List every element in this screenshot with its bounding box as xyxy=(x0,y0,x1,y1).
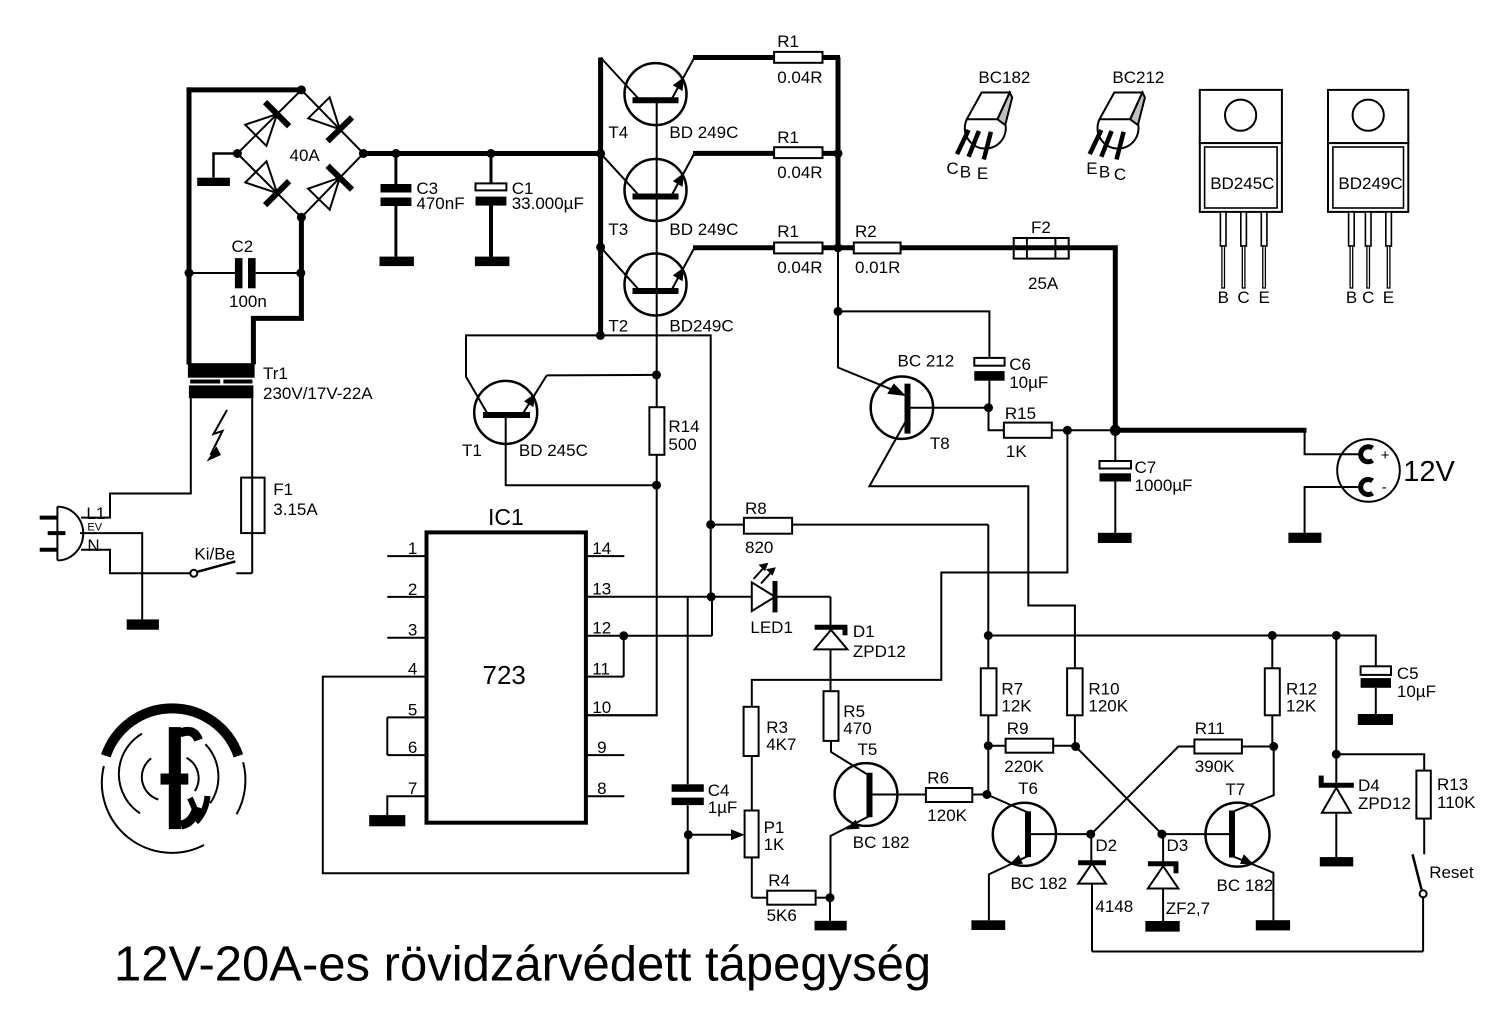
wire: rail bottom junction right to R8 column xyxy=(600,335,710,596)
svg-text:B: B xyxy=(960,162,971,181)
label R7 12K xyxy=(1001,679,1032,715)
zener diode D4 ZPD12 xyxy=(1319,776,1354,858)
IC IC1 (723) body xyxy=(427,532,586,822)
svg-text:B: B xyxy=(1346,288,1357,307)
mains plug body xyxy=(57,507,83,561)
node: C2 left junction xyxy=(185,269,194,278)
transistor T7 BC182 xyxy=(1162,747,1274,921)
node: R15 right junction xyxy=(1063,426,1072,435)
fuse F2 xyxy=(1014,238,1069,259)
svg-text:E: E xyxy=(1259,288,1270,307)
wire: thick emitter rail x=838 xyxy=(836,58,841,248)
label C3 470nF xyxy=(416,179,464,213)
wire: jumper pin5 to pin6 xyxy=(386,717,388,755)
logo emblem xyxy=(102,708,246,852)
label 40A xyxy=(290,146,321,165)
wire: output to 12V plus pin xyxy=(1305,430,1361,454)
svg-text:13: 13 xyxy=(592,580,611,599)
label Ki/Be xyxy=(194,545,235,564)
wire: common base line of T4 T3 T2 down to T1 emitter junction xyxy=(656,100,658,375)
transformer Tr1: secondary bar xyxy=(188,363,255,378)
label T5 BC 182 xyxy=(853,740,910,852)
node: bridge left junction xyxy=(233,149,242,158)
svg-text:Tr1: Tr1 xyxy=(263,364,288,383)
ground under C7 xyxy=(1098,533,1132,543)
ground under D3 xyxy=(1145,921,1179,932)
label R1 0.04R (bottom) xyxy=(777,222,822,277)
wire: flip-flop positive rail xyxy=(988,636,1376,667)
node: R14 bottom / T1 base junction xyxy=(652,481,661,490)
resistor R1 (top) xyxy=(774,52,822,63)
resistor R2 xyxy=(854,243,901,254)
label R1 0.04R (middle) xyxy=(777,128,822,182)
transistor T2 BD249C xyxy=(601,247,695,315)
labels C B E of BC182 xyxy=(946,159,988,183)
transistor T6 BC182 xyxy=(987,795,1091,921)
capacitor C5 xyxy=(1361,666,1391,714)
svg-text:B: B xyxy=(1218,288,1229,307)
svg-text:T5: T5 xyxy=(858,740,878,759)
svg-text:723: 723 xyxy=(483,660,526,690)
node: R6 / T6 collector junction xyxy=(982,790,991,799)
bridge rectifier 40A: diode D-BR xyxy=(308,166,352,210)
wire: reset line to D2 anode xyxy=(1092,951,1423,953)
ground at pin 7 xyxy=(369,815,405,826)
node: bridge right junction xyxy=(359,149,368,158)
label D2 4148 xyxy=(1095,836,1133,916)
package drawing BD245C (TO-220) xyxy=(1200,90,1282,288)
svg-text:12K: 12K xyxy=(1001,696,1032,715)
wire: thick collector rail x=600.6 xyxy=(598,58,603,336)
node: C1 tap on dc rail xyxy=(487,149,496,158)
potentiometer P1 body xyxy=(745,811,759,898)
node: T1 collector junction on rail xyxy=(596,331,605,340)
label C2 100n xyxy=(229,237,267,311)
svg-text:2: 2 xyxy=(408,580,417,599)
switch Reset xyxy=(1413,854,1427,951)
svg-text:BC182: BC182 xyxy=(978,68,1030,87)
pin 11 tied to pin 12 xyxy=(586,636,624,679)
label R2 0.01R xyxy=(855,222,900,277)
label R8 820 xyxy=(745,499,773,557)
svg-text:F2: F2 xyxy=(1031,218,1051,237)
label T7 BC 182 xyxy=(1217,780,1274,895)
label R6 120K xyxy=(927,768,967,825)
svg-text:R14: R14 xyxy=(668,417,699,436)
diode D2 4148 xyxy=(1078,834,1106,951)
label C7 1000uF xyxy=(1135,458,1193,495)
svg-text:R15: R15 xyxy=(1005,404,1036,423)
wire: rail branch down to D4/R13 xyxy=(1335,636,1337,783)
svg-text:4: 4 xyxy=(408,660,417,679)
svg-text:T7: T7 xyxy=(1225,780,1245,799)
svg-text:11: 11 xyxy=(592,660,610,679)
svg-text:Ki/Be: Ki/Be xyxy=(194,545,235,564)
svg-text:8: 8 xyxy=(597,779,606,798)
svg-text:D2: D2 xyxy=(1095,836,1117,855)
label LED1 xyxy=(750,618,793,637)
svg-text:T6: T6 xyxy=(1018,779,1038,798)
node: D4 / R13 junction xyxy=(1332,750,1341,759)
svg-text:BD 249C: BD 249C xyxy=(669,123,738,142)
svg-text:110K: 110K xyxy=(1437,793,1476,812)
bridge rectifier edges xyxy=(237,90,363,217)
svg-text:BC212: BC212 xyxy=(1112,68,1164,87)
wire: primary left leg to L1 xyxy=(81,398,191,517)
resistor R10 xyxy=(1067,668,1083,747)
svg-text:C: C xyxy=(946,159,958,178)
svg-text:N: N xyxy=(87,536,99,555)
mains plug pin N xyxy=(40,548,58,552)
wire: R8 right down to positive rail of flip-flop xyxy=(987,525,989,636)
svg-text:BC 182: BC 182 xyxy=(1217,876,1274,895)
wire: T4 emitter row to R1 xyxy=(693,55,840,60)
node: T6 base / D2 junction xyxy=(1086,830,1095,839)
package drawing BC212 (TO-92) xyxy=(1090,93,1145,160)
wire: R14 bottom junction down to IC pin 10 xyxy=(586,485,657,715)
label Reset xyxy=(1429,863,1474,882)
svg-text:+: + xyxy=(1381,447,1390,464)
labels B C E of BD249C xyxy=(1346,288,1394,307)
resistor R1 (bottom) xyxy=(774,243,822,254)
wire: primary right leg down into fuse F1 xyxy=(251,398,253,573)
label R15 1K xyxy=(1005,404,1036,461)
svg-text:220K: 220K xyxy=(1004,757,1044,776)
node: R4 / T5 emitter / ground junction xyxy=(826,893,835,902)
svg-text:R4: R4 xyxy=(768,871,790,890)
capacitor C6 xyxy=(974,358,1004,408)
ground under T6 xyxy=(971,920,1005,930)
svg-text:40A: 40A xyxy=(290,146,321,165)
svg-text:C6: C6 xyxy=(1009,355,1031,374)
svg-text:120K: 120K xyxy=(1088,696,1128,715)
pin 3 xyxy=(387,621,426,640)
svg-text:C: C xyxy=(1237,288,1249,307)
node: rail / R7 junction xyxy=(984,631,993,640)
svg-text:BD245C: BD245C xyxy=(1210,174,1274,193)
package drawing BC182 (TO-92) xyxy=(957,93,1012,160)
node: rail/bridge junction at T3 collector xyxy=(596,149,605,158)
svg-text:BC 182: BC 182 xyxy=(853,833,910,852)
svg-text:T8: T8 xyxy=(930,434,950,453)
svg-text:T3: T3 xyxy=(608,220,628,239)
label T1 BD 245C xyxy=(462,441,588,460)
svg-text:BD 249C: BD 249C xyxy=(669,220,738,239)
svg-text:R2: R2 xyxy=(855,222,877,241)
label 723 xyxy=(483,660,526,690)
svg-text:EV: EV xyxy=(87,522,102,534)
svg-text:R6: R6 xyxy=(927,768,949,787)
transistor T1 BD245C xyxy=(474,375,656,485)
wire: F2 to output down and right (thick) xyxy=(1069,248,1307,430)
svg-text:3: 3 xyxy=(408,621,417,640)
pin 5 xyxy=(387,700,426,719)
label R12 12K xyxy=(1286,679,1317,715)
svg-text:ZPD12: ZPD12 xyxy=(1358,794,1411,813)
pin 1 xyxy=(387,539,426,558)
svg-text:230V/17V-22A: 230V/17V-22A xyxy=(263,384,373,403)
mains plug pin EV xyxy=(48,531,66,535)
svg-text:C: C xyxy=(1362,288,1374,307)
label R9 220K xyxy=(1004,719,1044,776)
labels B C E of BD245C xyxy=(1218,288,1270,307)
label T6 BC 182 xyxy=(1011,779,1068,893)
wire: thick left vertical wire (secondary left leg) xyxy=(187,87,192,364)
label R4 5K6 xyxy=(767,871,797,925)
svg-text:T1: T1 xyxy=(462,441,482,460)
ground under R4/T5 xyxy=(815,921,847,931)
node: pin12 junction dot xyxy=(619,631,628,640)
svg-text:D4: D4 xyxy=(1358,776,1380,795)
transistor T4 BD249C xyxy=(601,58,695,126)
label BC182 xyxy=(978,68,1030,87)
label R13 110K xyxy=(1437,775,1476,812)
svg-text:6: 6 xyxy=(408,738,417,757)
node: C2 right junction xyxy=(296,269,305,278)
svg-text:T2: T2 xyxy=(608,317,628,336)
node: R8 left junction xyxy=(706,520,715,529)
node: C5/D4 branch on rail xyxy=(1332,631,1341,640)
ground of mains earth xyxy=(127,619,159,629)
svg-text:C: C xyxy=(1114,165,1126,184)
node: T8 base junction xyxy=(984,403,993,412)
resistor R6 xyxy=(926,788,987,802)
resistor R5 xyxy=(824,691,868,774)
label R10 120K xyxy=(1088,679,1128,715)
wire: N pin to switch xyxy=(81,550,190,574)
wire: 12V minus pin to ground xyxy=(1305,487,1361,533)
label R1 0.04R (top) xyxy=(777,32,822,87)
svg-text:12V-20A-es rövidzárvédett tápe: 12V-20A-es rövidzárvédett tápegység xyxy=(114,938,931,992)
node: rail junction at T2 collector xyxy=(596,243,605,252)
connector 12V output xyxy=(1337,439,1400,502)
label BD245C inside package xyxy=(1210,174,1274,193)
mains plug pin L1 xyxy=(40,516,58,520)
transformer Tr1: core dashes xyxy=(190,380,252,384)
svg-text:0.04R: 0.04R xyxy=(777,163,822,182)
svg-text:D1: D1 xyxy=(853,622,875,641)
label T4 BD 249C xyxy=(608,123,738,142)
svg-text:4148: 4148 xyxy=(1095,897,1133,916)
svg-text:T4: T4 xyxy=(608,123,628,142)
label T2 BD249C xyxy=(608,317,733,336)
capacitor C7 xyxy=(1100,430,1132,533)
svg-text:E: E xyxy=(1383,288,1394,307)
capacitor C1 (electrolytic) xyxy=(476,154,507,257)
svg-text:0.04R: 0.04R xyxy=(777,258,822,277)
zener diode D3 ZF2,7 xyxy=(1148,834,1179,921)
wire: junction right to R13 xyxy=(1336,754,1424,770)
label BC 212 xyxy=(898,352,955,371)
label BC212 xyxy=(1112,68,1164,87)
node: R12 top on rail xyxy=(1268,631,1277,640)
wire: junction to ground xyxy=(829,898,831,921)
lightning bolt inside primary loop xyxy=(207,410,228,462)
svg-text:390K: 390K xyxy=(1195,757,1235,776)
ground under D4 xyxy=(1320,857,1353,866)
transistor T3 BD249C xyxy=(601,153,695,221)
label BD249C inside package xyxy=(1338,174,1402,193)
capacitor C4 xyxy=(672,597,704,873)
label R14 500 xyxy=(668,417,699,454)
svg-text:R8: R8 xyxy=(745,499,767,518)
wire: T2 emitter row to R1 and R2 xyxy=(693,245,854,250)
wire: thick top wire from transformer to bridge top node xyxy=(187,87,301,92)
transformer Tr1: primary bar xyxy=(189,385,254,398)
bridge rectifier 40A: diode D-TL xyxy=(245,102,289,146)
svg-text:D3: D3 xyxy=(1167,836,1189,855)
wire: bridge bottom node down and jog to transformer right leg xyxy=(253,217,301,364)
svg-text:BD 245C: BD 245C xyxy=(519,441,588,460)
svg-text:1µF: 1µF xyxy=(708,798,738,817)
svg-text:LED1: LED1 xyxy=(750,618,793,637)
label C6 10uF xyxy=(1009,355,1048,392)
node: C6 branch junction xyxy=(834,307,843,316)
label D1 ZPD12 xyxy=(853,622,906,661)
ground under 12V connector xyxy=(1288,533,1321,543)
svg-text:12V: 12V xyxy=(1403,456,1455,488)
wire: sense line from R3 top to R15 junction xyxy=(752,430,1068,707)
potentiometer P1 wiper arrow xyxy=(688,829,744,840)
wire: cross-coupling from T6 base up to R11 xyxy=(1091,747,1194,835)
resistor R12 xyxy=(1265,636,1280,747)
wire: earth pin to ground xyxy=(80,533,142,619)
svg-text:R13: R13 xyxy=(1437,775,1468,794)
pin 14 xyxy=(586,539,624,558)
svg-text:12K: 12K xyxy=(1286,696,1317,715)
svg-text:120K: 120K xyxy=(927,806,967,825)
pin 9 xyxy=(586,738,624,757)
zener diode D1 ZPD12 xyxy=(815,597,848,691)
node: R11 / R12 / T7 collector junction xyxy=(1269,742,1278,751)
node: output thick wire / C7 junction xyxy=(1110,425,1121,436)
node: pin13 / LED / R8 junction xyxy=(707,592,716,601)
resistor R1 (middle) xyxy=(774,147,822,158)
svg-text:25A: 25A xyxy=(1028,274,1059,293)
LED LED1 xyxy=(752,581,831,612)
pin 13 wire to LED junction xyxy=(586,580,752,599)
label D4 ZPD12 xyxy=(1358,776,1411,813)
svg-text:BC 182: BC 182 xyxy=(1011,874,1068,893)
resistor R3 xyxy=(744,707,759,811)
svg-text:C7: C7 xyxy=(1135,458,1157,477)
bridge rectifier 40A: diode D-TR xyxy=(308,97,352,141)
wire: R7 bottom junction down to T6 collector node xyxy=(987,746,989,795)
resistor R13 xyxy=(1416,771,1430,855)
label F1 3.15A xyxy=(273,480,318,519)
wire: cross-coupling from R10 bottom to T7 base xyxy=(1076,747,1162,835)
label D3 ZF2,7 xyxy=(1166,836,1210,918)
node: R7 bottom / R9 left junction xyxy=(984,741,993,750)
wire: T3 emitter row to R1 xyxy=(693,151,840,156)
ground under T7 xyxy=(1256,920,1290,930)
ground under C3 xyxy=(380,257,414,267)
svg-text:470: 470 xyxy=(843,719,871,738)
node: emitter rail junction row2 xyxy=(834,149,843,158)
svg-text:500: 500 xyxy=(668,435,696,454)
pin 6 xyxy=(387,738,426,757)
resistor R4 xyxy=(752,891,830,905)
node: C4 / pin4 / wiper junction xyxy=(684,830,693,839)
pin 10 xyxy=(586,698,658,717)
transistor T5 BC182 xyxy=(831,763,926,898)
svg-text:BD249C: BD249C xyxy=(669,317,733,336)
resistor R15 xyxy=(989,408,1116,438)
svg-text:R1: R1 xyxy=(777,32,799,51)
label T3 BD 249C xyxy=(608,220,738,239)
resistor R14 xyxy=(649,375,664,485)
svg-text:1K: 1K xyxy=(1006,442,1027,461)
svg-text:100n: 100n xyxy=(229,292,267,311)
svg-text:C5: C5 xyxy=(1397,664,1419,683)
svg-text:E: E xyxy=(977,164,988,183)
capacitor C3 xyxy=(381,154,412,257)
svg-text:E: E xyxy=(1086,159,1097,178)
label C5 10uF xyxy=(1397,664,1436,701)
pin 2 xyxy=(387,580,426,599)
label P1 1K xyxy=(764,818,785,854)
svg-text:R1: R1 xyxy=(777,128,799,147)
pin 12 wire and junction xyxy=(586,597,712,638)
title text xyxy=(114,938,931,992)
resistor R7 xyxy=(981,636,997,746)
label C4 1uF xyxy=(708,781,738,817)
transistor T8 BC212 xyxy=(869,377,1075,669)
svg-text:R1: R1 xyxy=(777,222,799,241)
svg-text:1000µF: 1000µF xyxy=(1135,476,1193,495)
svg-text:BC 212: BC 212 xyxy=(898,352,955,371)
label R5 470 xyxy=(843,702,871,738)
wire: bridge right node to transistor rail xyxy=(363,151,600,156)
bridge rectifier 40A: diode D-BL xyxy=(245,161,289,205)
wire: R2 to F2 thick xyxy=(901,245,1014,250)
label F2 25A xyxy=(1028,218,1059,293)
fuse F1 xyxy=(241,478,265,533)
svg-text:ZF2,7: ZF2,7 xyxy=(1166,899,1210,918)
labels E B C of BC212 xyxy=(1086,159,1126,184)
svg-text:0.01R: 0.01R xyxy=(855,258,900,277)
svg-text:R9: R9 xyxy=(1007,719,1029,738)
svg-text:L1: L1 xyxy=(86,504,105,523)
svg-text:1: 1 xyxy=(408,539,417,558)
svg-text:C2: C2 xyxy=(232,237,254,256)
svg-text:1K: 1K xyxy=(764,835,785,854)
pin 7 with ground xyxy=(387,779,426,815)
svg-text:10: 10 xyxy=(592,698,611,717)
label T8 xyxy=(930,434,950,453)
wire: bridge left node stub to plate xyxy=(214,154,238,178)
wire: C6 top wire xyxy=(838,311,989,358)
svg-text:7: 7 xyxy=(408,779,417,798)
capacitor C2 xyxy=(189,258,301,288)
pin 8 xyxy=(586,779,624,798)
ground under C5 xyxy=(1358,714,1393,725)
svg-text:12: 12 xyxy=(592,619,611,638)
svg-text:Reset: Reset xyxy=(1429,863,1474,882)
node: T1 emitter to base-line junction xyxy=(652,370,661,379)
resistor R9 xyxy=(988,739,1075,753)
label 12V xyxy=(1403,456,1455,488)
ground under C1 xyxy=(475,257,510,267)
label C1 33.000uF xyxy=(512,179,584,213)
node: C3 tap on dc rail xyxy=(391,149,400,158)
resistor R11 xyxy=(1194,740,1273,754)
svg-text:5K6: 5K6 xyxy=(767,906,797,925)
node: R9 right / R10 bottom junction xyxy=(1071,742,1080,751)
svg-text:BD249C: BD249C xyxy=(1338,174,1402,193)
label IC1 xyxy=(488,504,524,530)
label R3 4K7 xyxy=(766,718,796,754)
